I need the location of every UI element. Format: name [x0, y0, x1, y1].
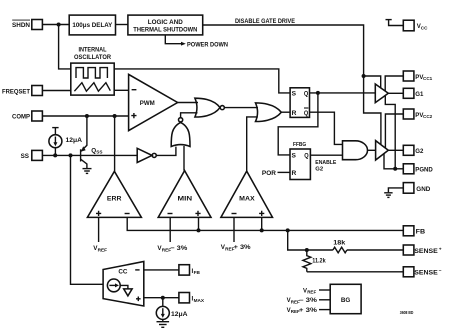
label QSS [91, 147, 102, 154]
wire MAX apex to OR3 [247, 117, 258, 171]
svg-text:LOGIC AND: LOGIC AND [148, 19, 183, 26]
op-amp MIN [158, 171, 211, 218]
wire Qbar to AND gate [310, 112, 343, 144]
svg-text:100μs DELAY: 100μs DELAY [72, 22, 113, 29]
svg-text:CC: CC [118, 269, 128, 276]
pin G2 [403, 145, 424, 155]
transistor QSS [81, 116, 87, 168]
wire oscillator to PWM minus [114, 89, 128, 91]
wire AND out to driver 2 [368, 149, 376, 151]
wire SHDN junction down to oscillator [59, 25, 71, 69]
wire PVCC2 to driver 2 [385, 114, 403, 148]
wire SS to inverter [42, 154, 137, 156]
wire Q to driver 1 [310, 92, 376, 94]
flip-flop FFBG [290, 142, 310, 180]
pin SS [21, 150, 43, 160]
wire disable gate drive [203, 25, 381, 144]
wire disable branch to driver 1 [364, 76, 381, 88]
op-amp PWM [129, 74, 178, 130]
node Q junction [316, 91, 320, 95]
wire PVCC1 to driver 1 [385, 76, 403, 91]
node FB branch junction [286, 228, 290, 232]
gate NOR2 [195, 98, 224, 117]
inverter SS [137, 148, 156, 162]
block 100us delay [69, 15, 115, 35]
svg-text:GND: GND [416, 186, 431, 193]
svg-text:11.2k: 11.2k [312, 259, 326, 265]
wire MIN plus to FB rail [198, 217, 200, 230]
wire BG vref [319, 289, 330, 291]
wire MIN apex to NOR1 [183, 146, 185, 171]
wire NOR2 out to OR3 [224, 107, 258, 109]
node disable junction [362, 74, 366, 78]
wire PWM out to NOR2 [178, 102, 198, 104]
svg-text:POWER DOWN: POWER DOWN [187, 41, 228, 48]
pin VCC [403, 20, 428, 31]
pin COMP [12, 111, 42, 121]
svg-text:Q: Q [304, 110, 308, 117]
svg-text:12μA: 12μA [66, 137, 83, 144]
label VREF+3% bg [287, 308, 318, 314]
ground 12uA imax [157, 322, 170, 328]
svg-text:SS: SS [96, 150, 102, 155]
pin IMAX [179, 293, 205, 303]
svg-text:−: − [439, 269, 442, 274]
wire MAX minus to VREF+3% [233, 217, 235, 242]
svg-text:G2: G2 [315, 167, 324, 173]
pin FREQSET [2, 86, 42, 96]
svg-text:SS: SS [21, 153, 29, 160]
svg-text:12μA: 12μA [171, 311, 188, 318]
block BG bandgap [330, 284, 361, 313]
pin PGND [403, 164, 433, 174]
op-amp MAX [221, 171, 273, 217]
node COMP-ERR junction [113, 114, 117, 118]
wire ERR minus to FB rail [127, 217, 403, 230]
wire driver 2 out to G2 [388, 149, 403, 151]
gate OR3 [256, 103, 282, 122]
svg-text:R: R [292, 170, 297, 177]
ground GND pin [384, 193, 392, 198]
node SS CC junction [69, 153, 73, 157]
wire BG vref-3 [319, 299, 330, 301]
pin SENSE- [403, 267, 442, 277]
svg-text:FFBG: FFBG [293, 142, 306, 148]
wire GND to ground [388, 188, 403, 192]
label VREF-3% [157, 245, 187, 252]
svg-text:MAX: MAX [239, 195, 255, 202]
node PGND junction [393, 167, 397, 171]
wire FB branch down to sense divider [288, 230, 333, 250]
wire driver 1 return to PGND [385, 96, 395, 169]
svg-text:REF: REF [307, 290, 316, 295]
svg-text:MAX: MAX [194, 298, 205, 303]
buffer driver G2 [376, 141, 389, 160]
svg-text:MIN: MIN [178, 195, 193, 202]
block CC current comparator [103, 262, 144, 307]
block oscillator [71, 63, 114, 95]
wire oscillator to S input [114, 69, 290, 93]
pin G1 [403, 88, 424, 98]
current source 12uA imax [156, 298, 169, 322]
svg-text:+ 3%: + 3% [299, 308, 318, 314]
wire MAX plus to FB rail [261, 217, 263, 230]
wire OR3 out to R [281, 111, 290, 113]
svg-text:G1: G1 [415, 91, 424, 98]
svg-text:ERR: ERR [107, 195, 122, 202]
pin SENSE+ [403, 245, 442, 255]
svg-text:− 3%: − 3% [170, 245, 187, 252]
svg-text:CC1: CC1 [423, 76, 433, 81]
svg-text:S: S [292, 91, 297, 98]
pin FB [403, 226, 425, 236]
wire delay to logic [116, 24, 128, 26]
svg-text:COMP: COMP [12, 114, 30, 121]
svg-text:INTERNAL: INTERNAL [79, 47, 107, 54]
node MIN plus junction [197, 228, 201, 232]
wire power down [165, 35, 181, 44]
node SHDN junction [57, 23, 61, 27]
svg-text:18k: 18k [333, 241, 346, 247]
pin PVCC2 [403, 109, 432, 119]
wire to PGND pin [395, 168, 403, 170]
svg-text:3608 BD: 3608 BD [400, 310, 414, 315]
node MAX plus junction [260, 228, 264, 232]
svg-text:Q: Q [304, 153, 308, 160]
wire FFBG Q to AND gate [310, 154, 342, 156]
svg-text:OSCILLATOR: OSCILLATOR [74, 54, 111, 61]
ground QSS [83, 169, 92, 174]
svg-text:FREQSET: FREQSET [2, 88, 30, 95]
svg-text:CC: CC [421, 25, 428, 30]
svg-text:Q: Q [304, 91, 308, 98]
svg-text:SENSE: SENSE [414, 270, 438, 277]
wire 11.2k to SENSE- [307, 271, 404, 273]
arrow power down [181, 42, 186, 46]
wire COMP to PWM plus [42, 115, 128, 117]
gate AND G2 [343, 141, 368, 160]
wire MIN minus to VREF-3% [169, 217, 171, 242]
resistor 11.2k [303, 250, 326, 272]
wire driver 2 return [384, 154, 395, 169]
wire POR to FFBG R [278, 171, 291, 173]
pin IFB [179, 265, 201, 275]
supply tick 12uA [52, 128, 58, 135]
pin GND [403, 183, 431, 194]
wire CC to IMAX [144, 297, 179, 299]
label VREF bg [303, 288, 316, 294]
svg-text:G2: G2 [415, 148, 424, 155]
diode arrow CC [120, 285, 132, 296]
wire CC to IFB [144, 269, 179, 271]
op-amp ERR [87, 171, 141, 217]
flip-flop SR main [290, 88, 309, 118]
svg-text:POR: POR [262, 170, 276, 177]
pin PVCC1 [403, 71, 432, 81]
supply VCC tick [386, 20, 404, 26]
svg-text:REF: REF [98, 247, 108, 252]
svg-text:+: + [439, 247, 442, 252]
wire inverter out to NOR1 [157, 147, 176, 156]
gate NOR1 [171, 118, 190, 147]
wire SHDN to delay [42, 24, 69, 26]
svg-text:SHDN: SHDN [12, 22, 30, 29]
svg-text:CC2: CC2 [423, 114, 433, 119]
wire BG vref+3 [319, 309, 330, 311]
current source CC [107, 279, 120, 292]
pin SHDN [12, 20, 42, 30]
current source 12uA soft start [49, 135, 62, 156]
node SS source junction [53, 153, 57, 157]
svg-text:SENSE: SENSE [414, 248, 438, 255]
label VREF [93, 245, 107, 252]
svg-text:ENABLE: ENABLE [315, 160, 336, 166]
svg-text:DISABLE GATE DRIVE: DISABLE GATE DRIVE [235, 18, 295, 25]
buffer driver G1 [375, 84, 388, 103]
node IMAX junction [161, 296, 165, 300]
wire FREQSET to oscillator [42, 90, 70, 92]
wire Q junction to FFBG S [278, 93, 318, 155]
label internal oscillator [74, 47, 111, 62]
svg-text:FB: FB [194, 270, 201, 275]
svg-text:PWM: PWM [140, 100, 155, 107]
svg-text:+ 3%: + 3% [234, 244, 251, 251]
square wave [76, 68, 107, 78]
svg-text:THERMAL SHUTDOWN: THERMAL SHUTDOWN [133, 26, 197, 33]
resistor 18k [333, 241, 347, 253]
svg-text:− 3%: − 3% [299, 298, 318, 304]
wire SS junction down to CC [71, 155, 104, 284]
wire driver 1 out to G1 [388, 92, 403, 94]
svg-text:FB: FB [416, 229, 426, 236]
svg-text:S: S [292, 153, 297, 160]
wire 18k to SENSE+ [347, 249, 403, 251]
label VREF-3% bg [287, 298, 318, 304]
wire COMP junction to ERR apex [114, 116, 116, 171]
svg-text:R: R [292, 110, 297, 117]
svg-text:PGND: PGND [415, 167, 433, 174]
triangle wave [74, 83, 110, 92]
node 11.2k junction [305, 248, 309, 252]
block logic and thermal shutdown [128, 15, 203, 35]
node COMP-QSS junction [85, 114, 89, 118]
wire ERR plus to VREF [98, 217, 100, 242]
svg-text:BG: BG [341, 297, 351, 304]
wire NOR1 out to NOR2 [181, 113, 198, 118]
label VREF+3% [221, 244, 251, 251]
